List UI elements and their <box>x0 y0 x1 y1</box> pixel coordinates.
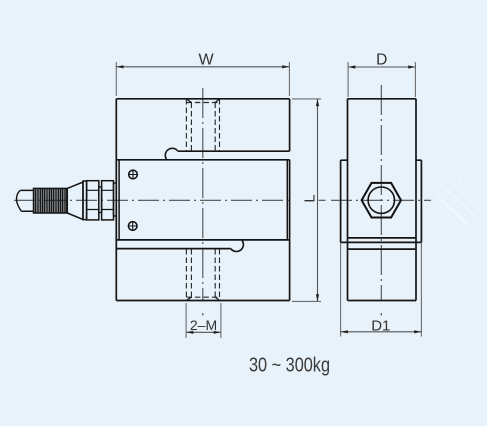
right edge upper <box>289 99 291 151</box>
stress hole top slot <box>165 148 178 159</box>
watermark swoosh <box>433 180 480 224</box>
strain relief ribs <box>34 188 68 213</box>
slot upper edge across column <box>348 237 417 239</box>
top edge <box>116 98 289 100</box>
hidden thread lines bottom block <box>186 249 219 300</box>
slot lower edge across column <box>348 248 417 250</box>
top slot upper edge <box>178 150 290 152</box>
svg-text:2–M: 2–M <box>190 317 217 333</box>
top slot lower edge / plate top <box>116 159 289 161</box>
left edge <box>115 99 117 301</box>
bottom slot upper edge / plate bottom <box>116 239 289 241</box>
ring thin end <box>114 183 117 216</box>
cover plate <box>119 160 287 240</box>
centerline dot below front view <box>202 313 204 316</box>
centerline horizontal between views <box>319 199 326 201</box>
plate bottom edge <box>341 241 422 243</box>
main block outline <box>116 99 289 301</box>
dim D <box>348 62 415 97</box>
centerline horizontal main <box>14 199 291 201</box>
bottom slot lower edge <box>116 248 231 250</box>
ring narrow gap <box>99 187 102 213</box>
ring big A <box>87 181 99 220</box>
screw top <box>129 170 138 179</box>
centerline vertical side view <box>380 85 382 300</box>
right edge lower <box>289 160 291 301</box>
centerline vertical front view <box>202 88 204 300</box>
screw bottom <box>128 222 137 231</box>
side plates (wider middle) <box>341 159 422 161</box>
centerline dot below side view <box>380 313 382 316</box>
cable <box>17 190 34 211</box>
svg-text:L: L <box>303 194 319 202</box>
centerline horizontal side view <box>331 199 431 201</box>
ring thin 1 <box>83 181 87 220</box>
svg-text:D1: D1 <box>371 318 390 335</box>
chamfer marks bottom hole <box>186 297 219 300</box>
hex nut <box>362 183 401 218</box>
hidden thread lines top block <box>186 99 219 151</box>
stress hole bottom slot <box>231 241 244 252</box>
dim W <box>116 62 289 96</box>
svg-text:30 ~ 300kg: 30 ~ 300kg <box>249 355 330 377</box>
dim L <box>292 99 321 302</box>
bottom edge <box>116 300 289 302</box>
svg-text:D: D <box>376 52 387 69</box>
cone <box>67 182 83 220</box>
dim 2-M <box>186 303 221 338</box>
ring big B <box>102 181 114 220</box>
column outline <box>348 98 417 100</box>
nut bore circle <box>368 187 394 213</box>
svg-text:W: W <box>198 52 214 69</box>
chamfer marks top hole <box>186 99 219 103</box>
dim D1 <box>341 242 422 336</box>
